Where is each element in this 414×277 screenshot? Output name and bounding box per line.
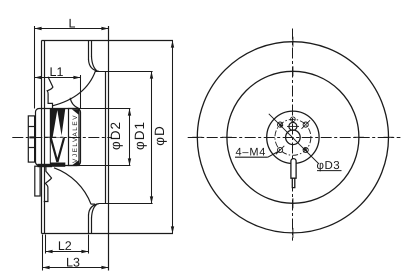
svg-text:φD2: φD2 [108, 121, 123, 150]
svg-text:L2: L2 [58, 239, 72, 253]
svg-text:L1: L1 [50, 65, 64, 79]
svg-text:L: L [69, 16, 76, 30]
svg-text:φD1: φD1 [132, 121, 147, 150]
svg-text:L3: L3 [66, 256, 80, 270]
svg-text:φD: φD [152, 125, 167, 146]
svg-text:VJELVALEV: VJELVALEV [72, 114, 79, 163]
